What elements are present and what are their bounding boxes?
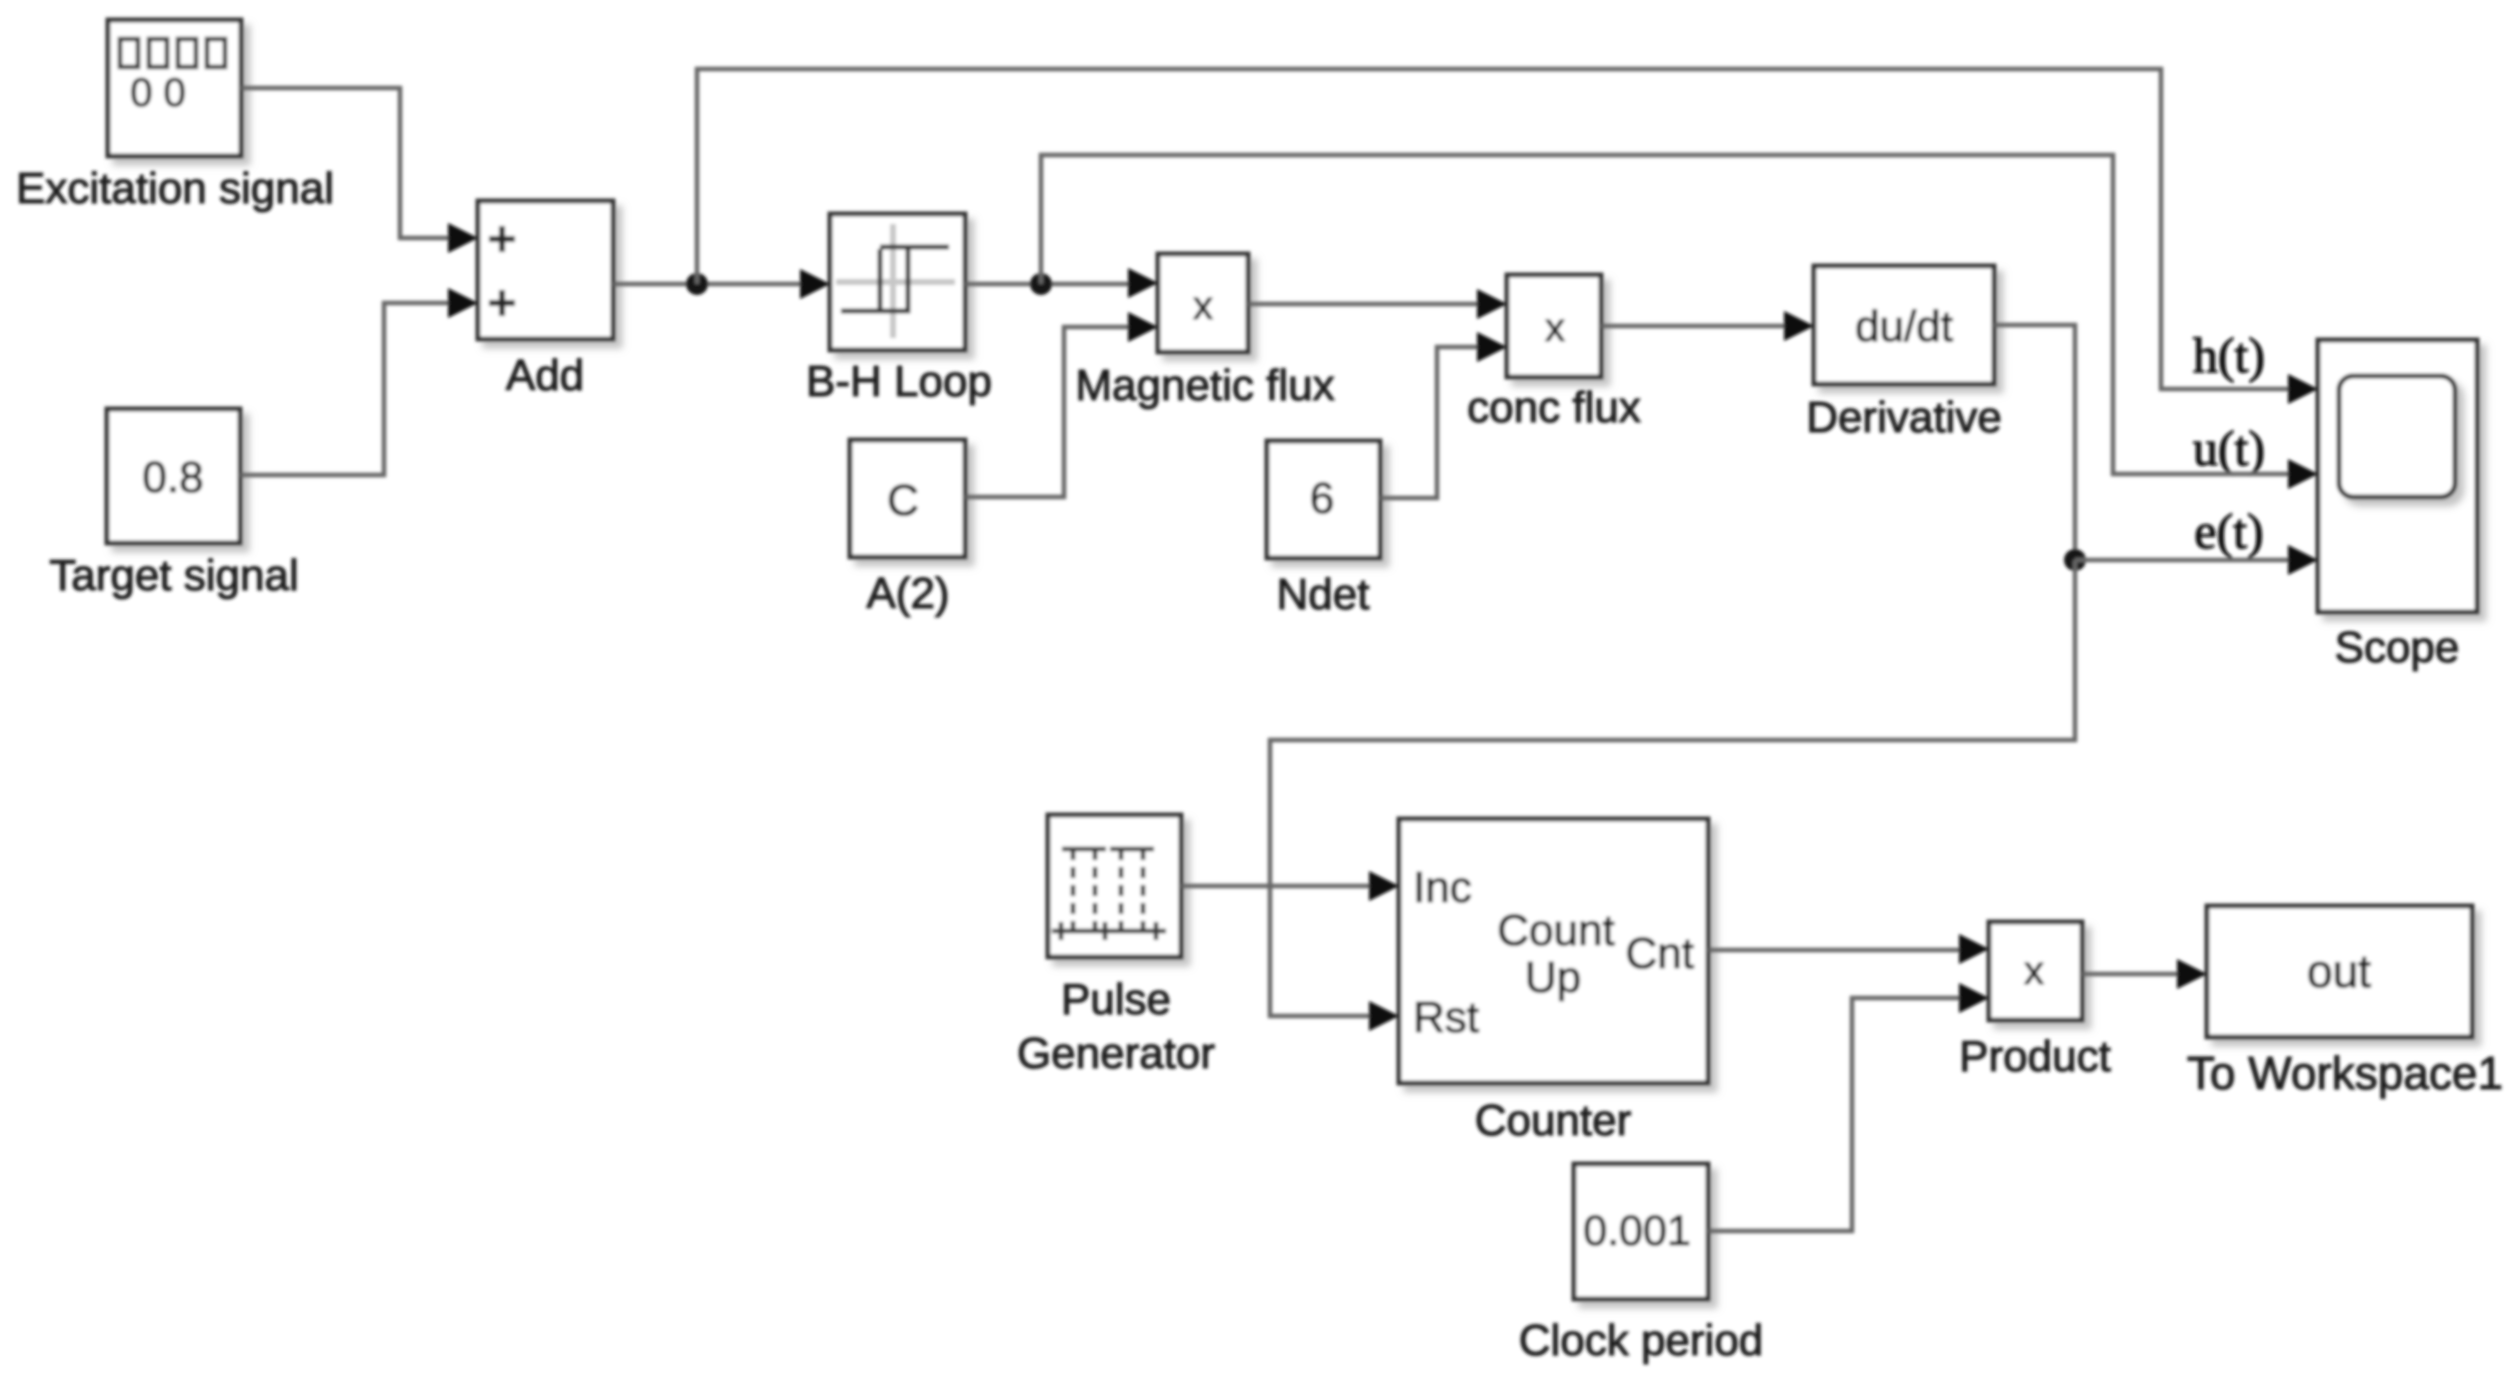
- wire A(2) -> Magnetic flux input 2: [965, 327, 1134, 497]
- wire Clock period -> Product input 2: [1708, 998, 1965, 1231]
- svg-text:Pulse: Pulse: [1061, 975, 1171, 1024]
- svg-text:Count: Count: [1497, 906, 1614, 955]
- svg-text:0.8: 0.8: [142, 453, 203, 502]
- block Counter: [1399, 819, 1708, 1083]
- block A(2) (constant C): [850, 440, 965, 557]
- node at Derivative output branch: [2064, 549, 2086, 571]
- svg-text:du/dt: du/dt: [1855, 302, 1953, 351]
- wire conc flux -> Derivative: [1601, 324, 1790, 329]
- svg-text:Clock period: Clock period: [1519, 1316, 1764, 1365]
- svg-text:x: x: [2024, 949, 2044, 993]
- wire node -> Scope u(t) input (second run): [1041, 155, 2294, 474]
- block Excitation signal (signal builder source): [108, 20, 241, 156]
- block conc flux (product): [1507, 275, 1601, 377]
- svg-text:Magnetic flux: Magnetic flux: [1075, 361, 1334, 410]
- node at B-H Loop output branch: [1030, 273, 1052, 295]
- wire Counter Cnt -> Product input 1: [1708, 948, 1965, 953]
- svg-text:Scope: Scope: [2335, 623, 2460, 672]
- block Clock period (constant 0.001): [1574, 1164, 1708, 1299]
- svg-text:u(t): u(t): [2193, 420, 2265, 476]
- svg-text:out: out: [2307, 945, 2371, 997]
- svg-text:Inc: Inc: [1413, 863, 1472, 912]
- svg-text:0.001: 0.001: [1583, 1207, 1691, 1255]
- svg-text:x: x: [1193, 284, 1213, 328]
- svg-text:Add: Add: [506, 351, 584, 400]
- svg-text:6: 6: [1310, 474, 1334, 523]
- svg-text:Cnt: Cnt: [1626, 929, 1694, 978]
- wire node -> Scope h(t) input (top run): [697, 69, 2294, 389]
- svg-text:Counter: Counter: [1475, 1096, 1632, 1145]
- svg-text:B-H Loop: B-H Loop: [806, 357, 992, 406]
- block Scope: [2318, 340, 2477, 612]
- svg-text:C: C: [887, 476, 919, 525]
- block Target signal (constant 0.8): [107, 409, 240, 543]
- svg-text:x: x: [1545, 306, 1565, 350]
- wire Excitation signal -> Add input 1: [241, 88, 452, 238]
- svg-text:e(t): e(t): [2194, 503, 2263, 559]
- wire Magnetic flux -> conc flux input 1: [1248, 302, 1483, 307]
- block Add (sum): [478, 201, 613, 339]
- svg-text:A(2): A(2): [866, 569, 949, 618]
- wire Target signal -> Add input 2: [240, 303, 452, 475]
- block B-H Loop (relay/hysteresis): [830, 214, 965, 350]
- svg-text:Generator: Generator: [1017, 1029, 1215, 1078]
- wire Derivative -> e(t) node: [1994, 325, 2075, 560]
- block Pulse Generator: [1048, 815, 1181, 957]
- wire Product -> To Workspace1: [2082, 972, 2183, 977]
- wire B-H Loop -> Magnetic flux input 1: [965, 282, 1134, 287]
- wire Ndet -> conc flux input 2: [1380, 347, 1483, 498]
- svg-text:Target signal: Target signal: [49, 551, 298, 600]
- block Product: [1989, 922, 2082, 1020]
- svg-text:h(t): h(t): [2193, 327, 2265, 383]
- block To Workspace1 (out): [2207, 906, 2472, 1037]
- wire node -> Counter Rst input (down and left run): [1270, 560, 2075, 1016]
- svg-text:0 0: 0 0: [130, 71, 186, 115]
- block Derivative (du/dt): [1814, 266, 1994, 384]
- wire Pulse Generator -> Counter Inc input: [1181, 884, 1375, 889]
- node at Add output branch: [686, 273, 708, 295]
- svg-text:Excitation signal: Excitation signal: [16, 164, 334, 213]
- svg-text:To Workspace1: To Workspace1: [2187, 1047, 2503, 1099]
- svg-text:Ndet: Ndet: [1277, 570, 1370, 619]
- svg-text:Derivative: Derivative: [1806, 393, 2002, 442]
- wire node -> Scope e(t) input: [2075, 558, 2294, 563]
- svg-text:conc flux: conc flux: [1467, 383, 1641, 432]
- wire Add -> B-H Loop: [613, 282, 806, 287]
- svg-text:Up: Up: [1525, 953, 1581, 1002]
- svg-text:Rst: Rst: [1413, 993, 1479, 1042]
- block Magnetic flux (product): [1158, 254, 1248, 352]
- svg-text:Product: Product: [1959, 1032, 2111, 1081]
- block Ndet (constant 6): [1267, 441, 1380, 558]
